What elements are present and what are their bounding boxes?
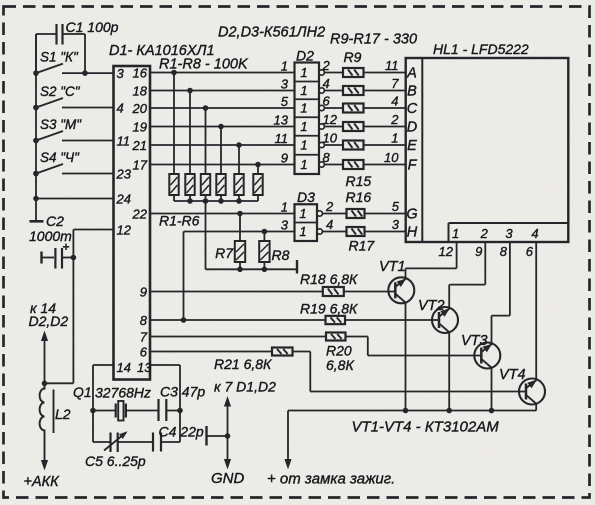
svg-text:13: 13: [137, 360, 152, 375]
svg-text:C5 6..25p: C5 6..25p: [85, 453, 146, 469]
svg-text:1: 1: [281, 200, 288, 215]
svg-text:5: 5: [281, 94, 289, 109]
svg-text:R17: R17: [349, 238, 376, 254]
svg-text:4: 4: [326, 217, 333, 232]
svg-text:H: H: [407, 224, 418, 240]
svg-text:D2: D2: [296, 48, 314, 64]
svg-text:D2,D2: D2,D2: [29, 313, 69, 329]
svg-text:5: 5: [392, 199, 400, 214]
svg-text:20: 20: [132, 101, 148, 116]
svg-text:22: 22: [132, 207, 148, 222]
svg-text:11: 11: [275, 131, 289, 146]
svg-text:1: 1: [300, 101, 307, 116]
svg-text:S1 "К": S1 "К": [40, 50, 79, 65]
svg-text:C: C: [407, 101, 418, 117]
svg-text:8: 8: [140, 313, 148, 328]
svg-text:3: 3: [117, 66, 125, 81]
svg-text:12: 12: [323, 112, 338, 127]
svg-text:S2 "С": S2 "С": [40, 84, 81, 99]
svg-text:R18 6,8К: R18 6,8К: [300, 271, 358, 287]
svg-text:C3 47p: C3 47p: [160, 384, 205, 400]
svg-text:9: 9: [281, 151, 288, 166]
svg-text:21: 21: [132, 138, 147, 153]
svg-text:VT1-VT4 - КТ3102АМ: VT1-VT4 - КТ3102АМ: [352, 419, 500, 436]
svg-text:A: A: [406, 65, 417, 81]
svg-text:1: 1: [300, 119, 307, 134]
svg-text:VT2: VT2: [418, 298, 445, 314]
svg-text:14: 14: [117, 360, 131, 375]
svg-text:2: 2: [325, 199, 334, 214]
svg-text:R15: R15: [346, 173, 372, 189]
svg-text:24: 24: [116, 192, 131, 207]
svg-text:G: G: [406, 206, 417, 222]
svg-text:4: 4: [323, 76, 330, 91]
svg-text:2: 2: [322, 58, 331, 73]
svg-text:C4 22p: C4 22p: [159, 424, 204, 440]
svg-text:1: 1: [391, 131, 398, 146]
svg-text:7: 7: [391, 76, 399, 91]
svg-text:32768Hz: 32768Hz: [95, 385, 151, 401]
svg-text:1: 1: [299, 206, 306, 221]
svg-text:R1-R6: R1-R6: [159, 213, 200, 229]
svg-text:12: 12: [439, 244, 454, 259]
svg-text:R8: R8: [272, 247, 290, 263]
svg-text:6: 6: [323, 94, 331, 109]
svg-text:VT4: VT4: [499, 367, 526, 383]
svg-text:D: D: [407, 119, 417, 135]
svg-text:D3: D3: [297, 189, 315, 205]
svg-text:R16: R16: [346, 189, 372, 205]
svg-text:4: 4: [117, 101, 124, 116]
svg-text:11: 11: [385, 58, 399, 73]
svg-text:10: 10: [323, 131, 338, 146]
svg-text:B: B: [407, 83, 417, 99]
svg-text:E: E: [407, 138, 417, 154]
svg-text:R7: R7: [215, 245, 234, 261]
svg-text:18: 18: [133, 84, 148, 99]
svg-text:9: 9: [140, 285, 147, 300]
svg-text:1: 1: [299, 224, 306, 239]
svg-text:GND: GND: [211, 470, 245, 487]
svg-text:1: 1: [300, 83, 307, 98]
svg-text:8: 8: [323, 150, 331, 165]
svg-text:7: 7: [140, 330, 148, 345]
svg-text:R1-R8 - 100K: R1-R8 - 100K: [159, 57, 249, 73]
svg-text:S4 "Ч": S4 "Ч": [40, 150, 80, 165]
svg-text:6: 6: [526, 244, 534, 259]
svg-text:10: 10: [384, 150, 399, 165]
svg-text:R21 6,8К: R21 6,8К: [214, 356, 272, 372]
svg-text:C2: C2: [46, 213, 64, 229]
svg-text:S3 "М": S3 "М": [40, 117, 82, 132]
svg-text:13: 13: [274, 113, 289, 128]
svg-text:3: 3: [281, 77, 289, 92]
svg-text:2: 2: [390, 112, 399, 127]
svg-text:к 7 D1,D2: к 7 D1,D2: [214, 379, 276, 395]
svg-text:F: F: [408, 157, 418, 173]
svg-text:2: 2: [480, 226, 489, 241]
svg-text:19: 19: [133, 120, 147, 135]
svg-text:R9-R17 - 330: R9-R17 - 330: [330, 32, 417, 48]
svg-text:6: 6: [140, 345, 148, 360]
svg-text:1: 1: [300, 157, 307, 172]
svg-text:8: 8: [500, 244, 508, 259]
svg-text:1: 1: [281, 59, 288, 74]
svg-text:4: 4: [391, 94, 398, 109]
svg-text:+ от замка зажиг.: + от замка зажиг.: [267, 471, 395, 488]
svg-text:1: 1: [300, 138, 307, 153]
svg-text:VT1: VT1: [379, 259, 406, 275]
svg-text:Q1: Q1: [73, 384, 92, 400]
svg-text:1: 1: [452, 226, 459, 241]
svg-text:6,8К: 6,8К: [326, 357, 354, 373]
svg-text:16: 16: [133, 66, 148, 81]
svg-text:12: 12: [117, 223, 132, 238]
svg-text:D2,D3-К561ЛН2: D2,D3-К561ЛН2: [218, 25, 325, 41]
svg-text:9: 9: [475, 244, 482, 259]
svg-text:3: 3: [281, 218, 289, 233]
svg-text:17: 17: [133, 158, 148, 173]
svg-text:1: 1: [300, 65, 307, 80]
svg-text:4: 4: [531, 226, 538, 241]
svg-text:3: 3: [505, 226, 513, 241]
svg-text:11: 11: [117, 134, 131, 149]
svg-text:L2: L2: [55, 406, 71, 422]
svg-text:C1 100p: C1 100p: [66, 19, 119, 35]
svg-text:1000m: 1000m: [29, 228, 72, 244]
svg-text:R9: R9: [344, 49, 362, 65]
svg-text:3: 3: [392, 217, 400, 232]
svg-text:HL1 - LFD5222: HL1 - LFD5222: [433, 41, 529, 57]
svg-text:+АКК: +АКК: [24, 474, 61, 490]
svg-text:R19 6,8К: R19 6,8К: [300, 301, 358, 317]
svg-text:VT3: VT3: [461, 333, 488, 349]
svg-text:23: 23: [116, 167, 132, 182]
